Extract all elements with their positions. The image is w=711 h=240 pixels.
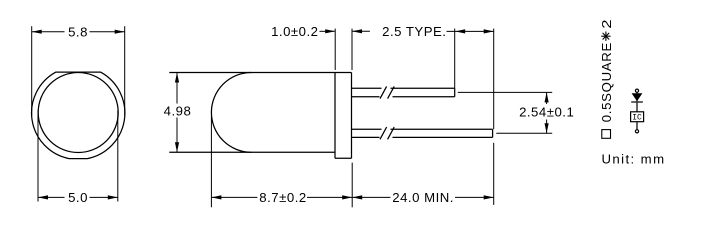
svg-text:IC: IC <box>632 114 642 123</box>
svg-text:1.0±0.2: 1.0±0.2 <box>271 24 318 39</box>
svg-text:2: 2 <box>600 19 615 29</box>
svg-text:24.0 MIN.: 24.0 MIN. <box>392 190 454 205</box>
svg-text:0.5SQUARE: 0.5SQUARE <box>599 42 614 122</box>
svg-text:5.0: 5.0 <box>68 190 88 205</box>
svg-text:2.5 TYPE.: 2.5 TYPE. <box>382 24 446 39</box>
svg-text:5.8: 5.8 <box>68 25 88 40</box>
svg-text:2.54±0.1: 2.54±0.1 <box>519 104 574 119</box>
svg-text:4.98: 4.98 <box>164 103 192 118</box>
svg-text:Unit: mm: Unit: mm <box>602 151 666 166</box>
svg-text:8.7±0.2: 8.7±0.2 <box>259 190 306 205</box>
